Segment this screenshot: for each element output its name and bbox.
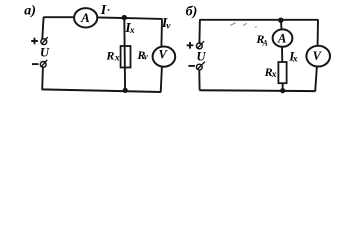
ammeter A (circuit a)	[74, 8, 97, 27]
wire top-left segment (circuit a)	[44, 16, 75, 18]
label Ix (circuit a)	[124, 21, 135, 36]
ammeter A (circuit b)	[273, 29, 293, 46]
terminal + (circuit a)	[41, 37, 48, 45]
junction dot bottom (circuit a)	[123, 88, 128, 93]
terminal - (circuit b)	[196, 62, 204, 70]
wire left side lower (circuit b)	[198, 70, 200, 90]
label Ix (circuit b)	[288, 49, 298, 64]
label - (circuit a)	[32, 63, 38, 65]
resistor Rx box (circuit b)	[278, 62, 286, 83]
scan speck above RA	[255, 26, 257, 27]
resistor Rx box (circuit a)	[121, 46, 131, 68]
label а)	[24, 3, 36, 18]
svg-text:А: А	[277, 31, 286, 45]
label RA (circuit b)	[255, 32, 268, 48]
label - (circuit b)	[188, 65, 195, 67]
label U (circuit a)	[40, 46, 50, 60]
wire right side upper (circuit a)	[160, 19, 163, 48]
wire right side upper (circuit b)	[317, 19, 319, 45]
wire left side lower (circuit a)	[41, 67, 44, 90]
wire bottom (circuit b)	[199, 89, 315, 92]
label Rx (circuit a)	[105, 49, 120, 64]
terminal - (circuit a)	[40, 60, 47, 67]
svg-text:R: R	[105, 49, 114, 63]
wire top-right segment (circuit a)	[97, 17, 162, 19]
svg-text:U: U	[197, 49, 207, 63]
scan speck right	[243, 23, 247, 25]
wire junction to ammeter (circuit b)	[280, 20, 283, 29]
wire left side upper (circuit b)	[198, 19, 201, 43]
svg-text:x: x	[292, 55, 298, 65]
svg-text:а): а)	[24, 3, 36, 18]
svg-text:U: U	[40, 46, 50, 60]
svg-text:б): б)	[186, 4, 198, 19]
junction dot top (circuit b)	[278, 18, 283, 23]
svg-text:x: x	[114, 54, 120, 64]
wire right side lower (circuit b)	[315, 66, 317, 91]
label I with arrow dash (circuit a)	[100, 3, 110, 18]
label Rx (circuit b)	[264, 65, 277, 80]
svg-text:x: x	[129, 26, 135, 36]
wire branch Rx through box (circuit a)	[123, 18, 126, 90]
label Rv (circuit a)	[136, 48, 148, 62]
voltmeter V (circuit b)	[306, 46, 330, 67]
svg-text:I: I	[100, 3, 107, 18]
junction dot top (circuit a)	[122, 15, 127, 20]
label б)	[186, 4, 198, 19]
wire right side lower (circuit a)	[161, 67, 162, 92]
wire left side upper (circuit a)	[42, 17, 43, 39]
junction dot bottom (circuit b)	[280, 88, 285, 93]
voltmeter V (circuit a)	[153, 47, 176, 67]
label + (circuit b)	[187, 42, 194, 49]
wire Rx to bottom (circuit b)	[282, 83, 284, 90]
svg-text:А: А	[80, 10, 90, 25]
wire ammeter to Rx (circuit b)	[281, 47, 283, 63]
wire top (circuit b)	[200, 19, 318, 21]
scan speck left	[231, 23, 236, 25]
svg-text:А: А	[262, 39, 269, 48]
wire bottom (circuit a)	[42, 89, 161, 92]
label + (circuit a)	[31, 38, 38, 45]
label U (circuit b)	[197, 49, 207, 63]
label Iv (circuit a)	[161, 16, 171, 32]
svg-text:x: x	[271, 70, 277, 80]
terminal + (circuit b)	[196, 41, 204, 49]
